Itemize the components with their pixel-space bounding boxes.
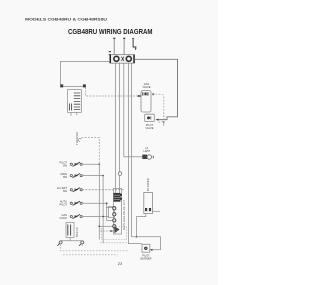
- terminal block TB1: [110, 55, 135, 64]
- main vertical bus 3: [124, 64, 143, 157]
- switch SW1 label: [60, 161, 68, 168]
- svg-text:SW: SW: [63, 164, 68, 168]
- switch SW4: [70, 201, 82, 205]
- label above V1: [143, 82, 151, 89]
- wire left to relay pin1: [106, 206, 113, 208]
- switch SW2: [70, 174, 82, 178]
- relay K1 coil block: [114, 193, 123, 202]
- main vertical bus 5: [131, 64, 133, 237]
- label 24V rotated near T1 bottom: [75, 132, 79, 145]
- dashed line below enclosure: [100, 242, 127, 244]
- main vertical bus 4: [128, 64, 141, 244]
- main vertical bus 1: [115, 64, 117, 193]
- thermometer G1: [142, 155, 154, 160]
- ignitor box B2: [144, 193, 153, 214]
- relay K1 pins: [113, 207, 116, 228]
- svg-text:VALVE: VALVE: [146, 126, 154, 130]
- V1 right terminal: [152, 93, 154, 95]
- wire SW2 to bus: [82, 175, 103, 177]
- relay K1 armature: [114, 226, 119, 233]
- relay label rotated: [123, 200, 126, 230]
- wire SW3 to relay: [82, 189, 125, 191]
- wire bus row2 down: [102, 176, 104, 243]
- svg-text:SW: SW: [63, 189, 68, 193]
- svg-text:BURNER: BURNER: [141, 256, 152, 260]
- wire bus1 to relay pin4: [99, 225, 112, 227]
- svg-text:VALVE: VALVE: [143, 85, 151, 89]
- T1 secondary stubs: [71, 112, 77, 116]
- svg-text:MAIN GAS VALVE RLY: MAIN GAS VALVE RLY: [123, 200, 126, 230]
- L2 symbol: [132, 39, 137, 50]
- T1 right terminal: [83, 84, 86, 87]
- bottom dashed line 1: [61, 244, 129, 251]
- wire TB1 left to left drop: [61, 61, 110, 84]
- label L1 ticks left of terminal block: [109, 52, 111, 55]
- wire SW1 to bus: [82, 163, 99, 165]
- switch SW5: [70, 214, 82, 218]
- main vertical bus 2: [119, 64, 121, 193]
- power cord wire: [61, 240, 83, 242]
- dashed arrow into relay bottom: [100, 230, 111, 232]
- switch SW2 label: [61, 172, 68, 179]
- plug prong right: [79, 241, 84, 246]
- pilot valve V2: [145, 114, 155, 121]
- svg-text:MODELS CGB48RU & CGB48RS8U: MODELS CGB48RU & CGB48RS8U: [25, 16, 107, 21]
- wire T2 bottom: [69, 238, 71, 241]
- label above G1: [143, 146, 150, 153]
- svg-text:THERMO: THERMO: [75, 132, 79, 145]
- wire B2 right stub: [153, 210, 161, 212]
- bottom dashed line 2: [63, 244, 118, 255]
- wire V1 right loop: [153, 94, 164, 122]
- junction box B1: [109, 206, 115, 217]
- relay K1 body: [114, 189, 122, 235]
- plug prong left: [57, 241, 62, 246]
- svg-text:COCK: COCK: [60, 216, 68, 220]
- switch SW3: [70, 188, 82, 192]
- wire pilot link: [78, 137, 99, 164]
- label B2 rotated: [146, 178, 150, 191]
- svg-text:LIMIT: LIMIT: [143, 149, 150, 153]
- dashed enclosure bottom relay: [102, 227, 127, 240]
- transformer T1 primary wire: [62, 85, 85, 87]
- wire SW5 to B1: [82, 216, 109, 218]
- switch SW4 label: [60, 200, 68, 207]
- svg-text:23: 23: [118, 261, 123, 266]
- switch SW5 label: [60, 213, 68, 220]
- gas valve V1: [141, 91, 151, 113]
- wire SW4 to B1: [82, 203, 113, 220]
- svg-text:BLOWER: BLOWER: [146, 178, 150, 191]
- svg-text:CGB48RU WIRING DIAGRAM: CGB48RU WIRING DIAGRAM: [68, 27, 153, 36]
- label below V2: [146, 123, 154, 130]
- switch SW3 label: [57, 186, 67, 193]
- label T2 rotated: [75, 227, 79, 237]
- wire bus row1 down: [98, 164, 100, 239]
- wire L1 drop: [113, 38, 115, 55]
- thermocouple box B4: [142, 244, 150, 252]
- svg-text:TRANS: TRANS: [75, 227, 79, 237]
- label below B4: [141, 253, 152, 260]
- svg-text:SW: SW: [63, 175, 68, 179]
- T1 left terminal: [60, 84, 63, 87]
- transformer T1 body: [68, 90, 82, 113]
- wire B2 bottom to loop: [137, 214, 146, 237]
- transformer T2 box: [66, 223, 74, 238]
- arrow into valve V2 right: [156, 119, 159, 121]
- wire bottom loop: [132, 237, 161, 250]
- wire TB1 right to right bus: [135, 59, 178, 119]
- arrow into valve V1 left: [138, 95, 141, 97]
- thermometer G1 lead: [124, 156, 143, 158]
- wire N drop: [123, 38, 125, 55]
- svg-text:PILOT: PILOT: [60, 203, 68, 207]
- switch SW1: [70, 162, 82, 166]
- wire T1 to gas valve (dashed): [86, 87, 139, 96]
- node circle on bus 2: [118, 172, 122, 176]
